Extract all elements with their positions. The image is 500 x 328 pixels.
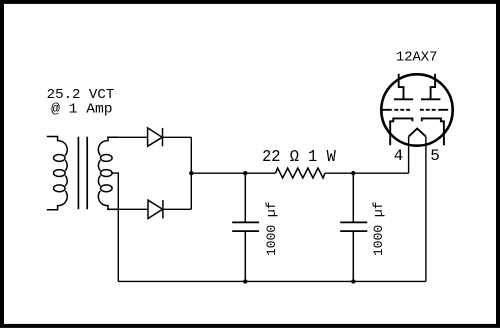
node: cap2 bottom junction bbox=[351, 279, 355, 283]
svg-text:1000 µf: 1000 µf bbox=[264, 201, 279, 256]
tube U1 12AX7 envelope bbox=[381, 74, 452, 145]
svg-text:5: 5 bbox=[430, 147, 440, 165]
diode D1 bbox=[148, 128, 163, 146]
tube U1 right cathode bbox=[422, 118, 444, 145]
resistor R1 22 ohm bbox=[276, 168, 325, 178]
node: cap2 top junction bbox=[351, 171, 355, 175]
svg-text:4: 4 bbox=[394, 147, 404, 165]
node: cap1 bottom junction bbox=[243, 279, 247, 283]
wire: rail segment left of resistor carries cap1 node bbox=[243, 171, 247, 175]
diode D2 bbox=[148, 200, 163, 218]
tube U1 left cathode bbox=[390, 118, 412, 145]
wire: secondary top lead to diode D1 bbox=[107, 136, 148, 138]
transformer T1 primary winding bbox=[47, 137, 68, 210]
svg-text:25.2 VCT: 25.2 VCT bbox=[47, 87, 115, 103]
svg-text:@ 1 Amp: @ 1 Amp bbox=[51, 102, 112, 118]
wire: pin 5 down to ground rail bbox=[425, 137, 427, 282]
wire: D1 cathode to corner bbox=[163, 136, 192, 138]
capacitor C2 1000uf bbox=[340, 173, 367, 281]
svg-text:22 Ω 1 W: 22 Ω 1 W bbox=[262, 147, 336, 166]
tube U1 heater filament bbox=[409, 129, 426, 137]
wire: B+ rail from junction to resistor bbox=[191, 172, 275, 174]
wire: pin 4 down to B+ rail bbox=[408, 137, 410, 174]
wire: secondary bottom lead to diode D2 bbox=[107, 208, 148, 210]
wire: resistor to cap2 node and pin4 corner bbox=[325, 172, 409, 174]
capacitor C1 1000uf bbox=[232, 173, 259, 281]
svg-text:12AX7: 12AX7 bbox=[396, 49, 438, 65]
transformer core bbox=[78, 137, 87, 210]
svg-text:1000 µf: 1000 µf bbox=[371, 201, 386, 256]
transformer T1 secondary winding bbox=[98, 137, 118, 209]
wire: vertical joining rectifier outputs bbox=[190, 137, 192, 209]
tube U1 right plate bbox=[421, 74, 440, 100]
wire: D2 cathode to corner bbox=[163, 208, 191, 210]
tube U1 right grid (dashed) bbox=[420, 109, 448, 111]
tube U1 left plate bbox=[394, 74, 413, 100]
wire: ground return rail bbox=[118, 280, 426, 282]
node: rectifier output junction bbox=[189, 171, 193, 175]
tube U1 left grid (dashed) bbox=[382, 109, 410, 111]
wire: transformer center tap bbox=[112, 173, 118, 281]
